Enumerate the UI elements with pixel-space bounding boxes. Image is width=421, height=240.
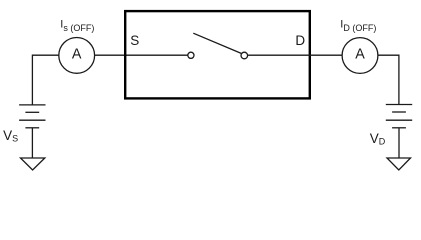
wire battery VD to ground (398, 128, 400, 158)
switch lever (193, 33, 241, 53)
battery VD long plate 1 (386, 104, 412, 106)
battery VD (right) plates (386, 105, 412, 128)
battery VS short plate 2 (25, 127, 39, 129)
svg-text:A: A (355, 47, 365, 63)
battery VS short plate 1 (25, 111, 39, 113)
battery VS (left) plates (19, 105, 45, 128)
wire switch to ammeter A2 (248, 54, 342, 56)
battery VS long plate 1 (19, 104, 45, 106)
ammeter A1 (59, 38, 95, 74)
wire ammeter A2 to right battery (378, 55, 399, 104)
switch contact circle right (241, 52, 248, 59)
svg-text:A: A (72, 47, 82, 63)
battery VS long plate 2 (19, 119, 45, 121)
ground symbol right (387, 158, 411, 170)
ground symbol left (21, 158, 45, 170)
ammeter A2 (342, 38, 378, 74)
svg-text:D: D (295, 33, 305, 48)
box (device under test) (125, 11, 310, 98)
wire ammeter A1 to switch contact S (95, 54, 188, 56)
wire battery VS to ground (31, 128, 33, 158)
battery VD short plate 2 (392, 127, 406, 129)
wire left battery to ammeter A1 (32, 55, 58, 105)
svg-text:S: S (130, 33, 139, 48)
switch contact circle left (188, 52, 194, 58)
battery VD long plate 2 (386, 119, 412, 121)
battery VD short plate 1 (392, 111, 406, 113)
